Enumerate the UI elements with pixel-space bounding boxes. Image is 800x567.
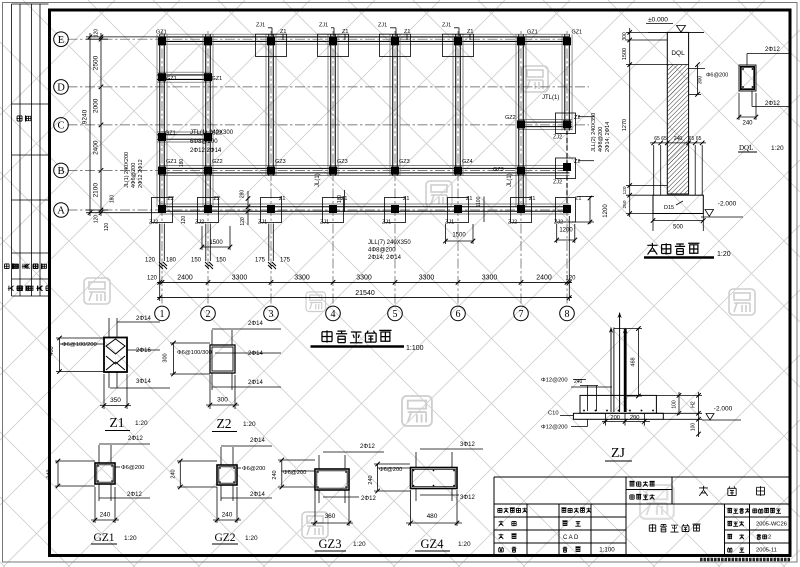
- caption foundation plan: [322, 330, 332, 342]
- svg-text:150: 150: [191, 258, 202, 264]
- svg-text:A: A: [57, 206, 65, 217]
- svg-text:2005-11: 2005-11: [756, 548, 777, 554]
- svg-text:2Φ14: 2Φ14: [250, 438, 265, 444]
- strip detail 500 dim: [653, 220, 703, 222]
- svg-text:65: 65: [689, 136, 695, 142]
- svg-text:300: 300: [163, 353, 169, 362]
- svg-text:65: 65: [654, 136, 660, 142]
- svg-text:3Φ12: 3Φ12: [460, 495, 475, 501]
- svg-text:1:100: 1:100: [599, 547, 615, 554]
- column pads on axis 8: [556, 113, 576, 134]
- bottom dimension chain: [157, 281, 572, 283]
- svg-text:Z1: Z1: [279, 196, 285, 202]
- svg-text:4Φ8@200: 4Φ8@200: [598, 127, 604, 152]
- svg-text:ZJ1: ZJ1: [378, 23, 387, 29]
- svg-text:C A D: C A D: [563, 535, 579, 541]
- title block frame: [494, 477, 790, 555]
- detail ZJ 200 dims: [602, 420, 650, 422]
- svg-text:Z2: Z2: [574, 159, 580, 165]
- extension lines right of axis 8: [578, 116, 594, 118]
- svg-text:250: 250: [622, 200, 628, 208]
- strip detail width dims 65-65-240-65-65: [650, 142, 706, 144]
- room divider beam between D and E: [157, 71, 211, 73]
- svg-text:1: 1: [160, 309, 165, 320]
- svg-text:6Φ8@200: 6Φ8@200: [190, 139, 218, 145]
- svg-text:DQL: DQL: [671, 50, 685, 57]
- pad dimension 1500 axes 2-3: [202, 246, 230, 248]
- svg-text:Z1: Z1: [403, 196, 409, 202]
- vertical beams axes 1,2,7 B to A: [156, 173, 158, 207]
- column pads at axis E: [256, 34, 287, 56]
- svg-text:468: 468: [631, 357, 637, 366]
- svg-text:2500: 2500: [93, 55, 100, 70]
- svg-text:65: 65: [696, 136, 702, 142]
- svg-text:JTL(1): JTL(1): [542, 95, 559, 101]
- detail ZJ dowel bars: [587, 386, 589, 412]
- svg-text:300: 300: [698, 76, 704, 85]
- svg-text:D: D: [57, 83, 65, 94]
- svg-text:240: 240: [674, 136, 683, 142]
- svg-text:Z2: Z2: [574, 115, 580, 121]
- svg-text:Z1: Z1: [466, 196, 472, 202]
- dashed beam axis 8 C to A: [566, 130, 568, 204]
- detail Z2 300 dim: [206, 404, 239, 406]
- svg-text:120: 120: [565, 275, 576, 281]
- pad dimension 1500 axis 6: [446, 240, 474, 242]
- svg-text:120: 120: [145, 258, 156, 264]
- signature strip rotated text: [16, 115, 30, 121]
- detail GZ4 480 dim: [406, 522, 462, 524]
- svg-text:ZJ2: ZJ2: [553, 135, 562, 141]
- dimension 1200 right edge rotated: [589, 196, 591, 224]
- svg-text:ZJ1: ZJ1: [319, 23, 328, 29]
- svg-text:GZ1: GZ1: [166, 76, 177, 82]
- svg-text:ZJ1: ZJ1: [382, 220, 391, 226]
- axis bubbles bottom: [155, 306, 170, 321]
- svg-text:ZJ1: ZJ1: [256, 23, 265, 29]
- svg-text:2400: 2400: [177, 274, 193, 281]
- svg-text:300: 300: [217, 397, 228, 404]
- svg-text:GZ3: GZ3: [399, 159, 410, 165]
- svg-text:3300: 3300: [232, 274, 248, 281]
- svg-text:1:20: 1:20: [353, 541, 366, 548]
- svg-text:GZ1: GZ1: [166, 159, 177, 165]
- svg-text:Z1: Z1: [529, 196, 535, 202]
- svg-text:2400: 2400: [93, 140, 100, 155]
- svg-text:175: 175: [280, 258, 291, 264]
- svg-text:1:20: 1:20: [124, 535, 137, 542]
- svg-text:500: 500: [673, 225, 684, 231]
- svg-text:240: 240: [171, 469, 177, 478]
- svg-text:200: 200: [630, 415, 640, 421]
- svg-text:ZJ2: ZJ2: [195, 220, 204, 226]
- svg-text:280: 280: [240, 190, 246, 199]
- svg-text:ZJ: ZJ: [611, 446, 626, 461]
- strip detail left dim chain: [629, 28, 631, 217]
- svg-text:ZJ2: ZJ2: [508, 220, 517, 226]
- strip detail wall hatch: [668, 65, 688, 194]
- svg-text:200: 200: [610, 415, 620, 421]
- svg-text:Z1: Z1: [575, 196, 581, 202]
- svg-text:120: 120: [94, 29, 100, 38]
- svg-text:GZ2: GZ2: [212, 159, 223, 165]
- DQL rebar section detail: [739, 65, 756, 91]
- svg-text:7: 7: [519, 309, 524, 320]
- title block drawing name: [649, 524, 655, 532]
- svg-text:-2.000: -2.000: [714, 406, 733, 413]
- svg-text:1100: 1100: [476, 196, 482, 207]
- svg-text:Φ6@100/200: Φ6@100/200: [62, 342, 97, 348]
- svg-text:180: 180: [166, 258, 177, 264]
- svg-text:Z2: Z2: [168, 196, 174, 202]
- svg-text:4: 4: [331, 309, 336, 320]
- grid axis lines: [68, 31, 590, 306]
- svg-text:GZ3: GZ3: [319, 537, 342, 551]
- strip detail footing: [653, 195, 703, 213]
- left signature strip table: [12, 4, 49, 296]
- svg-text:3Φ12: 3Φ12: [460, 442, 475, 448]
- detail Z2 column: [210, 345, 235, 373]
- svg-text:JLL(2) 240X350: JLL(2) 240X350: [591, 113, 597, 152]
- svg-text:2: 2: [206, 309, 211, 320]
- svg-text:GZ1: GZ1: [165, 131, 176, 137]
- svg-text:240: 240: [47, 469, 53, 478]
- svg-text:2Φ12: 2Φ12: [765, 47, 780, 53]
- svg-text:1200: 1200: [603, 204, 609, 218]
- svg-text:180: 180: [110, 195, 116, 204]
- svg-text:C10: C10: [548, 411, 559, 417]
- column squares: [158, 37, 166, 45]
- svg-text:3: 3: [269, 309, 274, 320]
- svg-text:Φ6@100/300: Φ6@100/300: [177, 350, 212, 356]
- svg-text:2Φ12: 2Φ12: [360, 444, 375, 450]
- svg-text:2Φ14; 2Φ14: 2Φ14; 2Φ14: [368, 255, 402, 261]
- detail ZJ right dims: [678, 392, 680, 415]
- svg-text:9240: 9240: [82, 109, 89, 124]
- svg-text:1500: 1500: [452, 233, 466, 239]
- bottom total dimension: [157, 297, 572, 299]
- svg-text:1:20: 1:20: [458, 541, 471, 548]
- svg-text:2Φ14; 2Φ14: 2Φ14; 2Φ14: [605, 122, 611, 152]
- svg-text:120: 120: [94, 215, 100, 224]
- svg-text:1500: 1500: [209, 240, 223, 246]
- svg-text:3300: 3300: [482, 274, 498, 281]
- svg-text:GZ1: GZ1: [93, 532, 114, 544]
- svg-text:120: 120: [240, 217, 246, 226]
- svg-text:2: 2: [768, 535, 771, 541]
- detail GZ1 column: [95, 463, 115, 484]
- svg-text:6: 6: [456, 309, 461, 320]
- room divider beam between C and B: [157, 131, 211, 133]
- detail GZ1 240 dim: [91, 519, 119, 521]
- svg-text:300: 300: [622, 32, 628, 41]
- svg-text:Z2: Z2: [214, 196, 220, 202]
- detail GZ3 360 dim: [311, 522, 353, 524]
- svg-text:3300: 3300: [294, 274, 310, 281]
- svg-text:65: 65: [661, 136, 667, 142]
- svg-text:240: 240: [272, 470, 278, 479]
- svg-text:2400: 2400: [536, 274, 552, 281]
- title block owner rows: [629, 481, 634, 486]
- detail GZ2 240 dim: [213, 519, 241, 521]
- svg-text:ZJ2: ZJ2: [553, 180, 562, 186]
- detail ZJ footing: [580, 395, 656, 413]
- svg-text:2Φ12: 2Φ12: [128, 436, 143, 442]
- strip detail wall: [667, 32, 688, 194]
- svg-text:8: 8: [565, 309, 570, 320]
- detail GZ3 column: [315, 469, 349, 490]
- title block personnel labels: [498, 508, 502, 513]
- svg-text:100: 100: [691, 423, 697, 432]
- svg-text:H2: H2: [691, 401, 697, 408]
- svg-text:120: 120: [181, 216, 187, 225]
- svg-text:GZ4: GZ4: [462, 159, 473, 165]
- foundation beam axis B: [160, 165, 570, 167]
- svg-text:180: 180: [179, 159, 185, 168]
- svg-text:350: 350: [110, 397, 121, 404]
- svg-text:GZ1: GZ1: [527, 30, 538, 36]
- svg-text:1200: 1200: [559, 228, 573, 234]
- left total dimension: [89, 33, 91, 216]
- svg-text:120: 120: [622, 186, 628, 194]
- svg-text:GZ2: GZ2: [214, 532, 235, 544]
- svg-text:2Φ14: 2Φ14: [136, 316, 151, 322]
- svg-text:JL(1): JL(1): [507, 173, 513, 187]
- svg-text:4Φ8@200: 4Φ8@200: [368, 248, 396, 254]
- svg-text:1270: 1270: [622, 119, 628, 131]
- svg-text:GZ3: GZ3: [493, 167, 504, 173]
- leader chevrons: [159, 224, 161, 262]
- svg-text:GZ2: GZ2: [505, 115, 516, 121]
- svg-text:Z2: Z2: [217, 416, 232, 431]
- svg-text:GZ1: GZ1: [156, 30, 167, 36]
- svg-text:2Φ16: 2Φ16: [136, 348, 151, 354]
- svg-text:Φ6@200: Φ6@200: [121, 465, 144, 471]
- svg-text:3300: 3300: [419, 274, 435, 281]
- svg-text:E: E: [58, 35, 64, 46]
- svg-text:240: 240: [574, 379, 583, 385]
- svg-text:2Φ12: 2Φ12: [765, 101, 780, 107]
- svg-text:C: C: [57, 121, 64, 132]
- disclaimer text bottom: [700, 558, 790, 561]
- svg-text:240: 240: [368, 475, 374, 484]
- detail ZJ column bars: [610, 328, 612, 413]
- foundation beam axis E: [160, 33, 570, 35]
- svg-text:1:20: 1:20: [243, 421, 256, 428]
- column pads at axis A: [152, 198, 173, 223]
- svg-text:ZJ1: ZJ1: [445, 220, 454, 226]
- svg-text:GZ3: GZ3: [275, 159, 286, 165]
- svg-text:240: 240: [100, 512, 111, 519]
- svg-text:175: 175: [255, 258, 266, 264]
- bottom extension lines: [159, 224, 161, 301]
- svg-text:1500: 1500: [622, 48, 628, 60]
- svg-text:GZ4: GZ4: [421, 537, 445, 551]
- foundation beam axis A: [160, 203, 570, 205]
- svg-text:2000: 2000: [93, 98, 100, 113]
- svg-text:2Φ14: 2Φ14: [248, 321, 263, 327]
- svg-text:GZ3: GZ3: [337, 159, 348, 165]
- watermark logo glyphs: [84, 66, 755, 538]
- detail Z1 350 dim: [100, 405, 131, 407]
- svg-text:GZ1: GZ1: [572, 30, 583, 36]
- svg-text:180: 180: [337, 195, 343, 204]
- title block project name: [699, 486, 708, 496]
- svg-text:±0.000: ±0.000: [648, 17, 668, 24]
- left extension lines: [86, 36, 159, 38]
- strip detail right 300 dim and stirrup label: [697, 65, 699, 95]
- svg-text:JL(1) 240X200: JL(1) 240X200: [124, 152, 130, 188]
- vertical foundation beams axes 1-7: [156, 34, 158, 175]
- svg-text:2Φ14: 2Φ14: [250, 492, 265, 498]
- svg-text:100: 100: [672, 400, 678, 409]
- svg-text:Φ6@200: Φ6@200: [706, 73, 728, 79]
- svg-text:D15: D15: [664, 205, 674, 211]
- svg-text:Z1: Z1: [110, 415, 125, 430]
- axis bubbles left: [54, 32, 69, 47]
- svg-text:3Φ14: 3Φ14: [136, 379, 151, 385]
- svg-text:JTL(1) 240X300: JTL(1) 240X300: [190, 130, 234, 136]
- svg-text:21540: 21540: [355, 290, 375, 297]
- detail GZ4 column: [411, 468, 458, 489]
- svg-text:1:20: 1:20: [771, 145, 784, 152]
- svg-text:GZ1: GZ1: [212, 76, 223, 82]
- vertical beam axis 8 E to C: [561, 34, 563, 130]
- svg-text:ZJ1: ZJ1: [320, 220, 329, 226]
- svg-text:4Φ6@200: 4Φ6@200: [131, 163, 137, 188]
- svg-text:2Φ14: 2Φ14: [248, 351, 263, 357]
- svg-text:ZJ1: ZJ1: [442, 23, 451, 29]
- detail GZ2 column: [217, 465, 237, 485]
- svg-text:-2.000: -2.000: [718, 201, 737, 208]
- svg-text:480: 480: [427, 513, 438, 520]
- svg-text:360: 360: [325, 513, 336, 520]
- svg-text:ZJ1: ZJ1: [258, 220, 267, 226]
- svg-text:Φ12@200: Φ12@200: [541, 378, 568, 384]
- pad dimension 1200 axis 8: [557, 239, 575, 241]
- svg-text:JL(1): JL(1): [315, 173, 321, 187]
- left dimension chain: [100, 33, 102, 216]
- svg-text:150: 150: [216, 258, 227, 264]
- svg-text:ZJ2: ZJ2: [554, 220, 563, 226]
- strip detail caption: [647, 243, 657, 254]
- svg-text:5: 5: [393, 309, 398, 320]
- svg-text:400: 400: [49, 346, 55, 355]
- svg-text:Φ6@200: Φ6@200: [242, 466, 265, 472]
- svg-text:240: 240: [222, 512, 233, 519]
- svg-text:240: 240: [742, 121, 753, 127]
- svg-text:1:20: 1:20: [717, 251, 731, 258]
- svg-text:2Φ12 2Φ12: 2Φ12 2Φ12: [138, 159, 144, 188]
- detail Z1 column: [104, 338, 127, 373]
- svg-text:2Φ14: 2Φ14: [248, 380, 263, 386]
- svg-text:ZJ2: ZJ2: [149, 220, 158, 226]
- svg-text:2Φ12: 2Φ12: [127, 492, 142, 498]
- foundation beam axis C segment 7-8: [519, 118, 572, 120]
- svg-text:DQL: DQL: [739, 144, 753, 152]
- svg-text:120: 120: [104, 223, 110, 232]
- svg-text:1:20: 1:20: [135, 420, 148, 427]
- svg-text:Φ12@200: Φ12@200: [541, 425, 568, 431]
- svg-text:3300: 3300: [356, 274, 372, 281]
- svg-text:2100: 2100: [93, 183, 100, 198]
- svg-text:120: 120: [147, 275, 158, 281]
- svg-text:1:20: 1:20: [245, 535, 258, 542]
- svg-text:2Φ12: 2Φ12: [361, 496, 376, 502]
- detail ZJ height dim: [637, 329, 639, 397]
- title block right column: [727, 508, 732, 512]
- svg-text:JLL(7) 240X350: JLL(7) 240X350: [368, 240, 411, 246]
- svg-text:2Φ12 2Φ14: 2Φ12 2Φ14: [190, 148, 222, 154]
- svg-text:2005-WC26: 2005-WC26: [756, 522, 787, 528]
- svg-text:B: B: [57, 166, 64, 177]
- svg-text:1:100: 1:100: [406, 345, 424, 352]
